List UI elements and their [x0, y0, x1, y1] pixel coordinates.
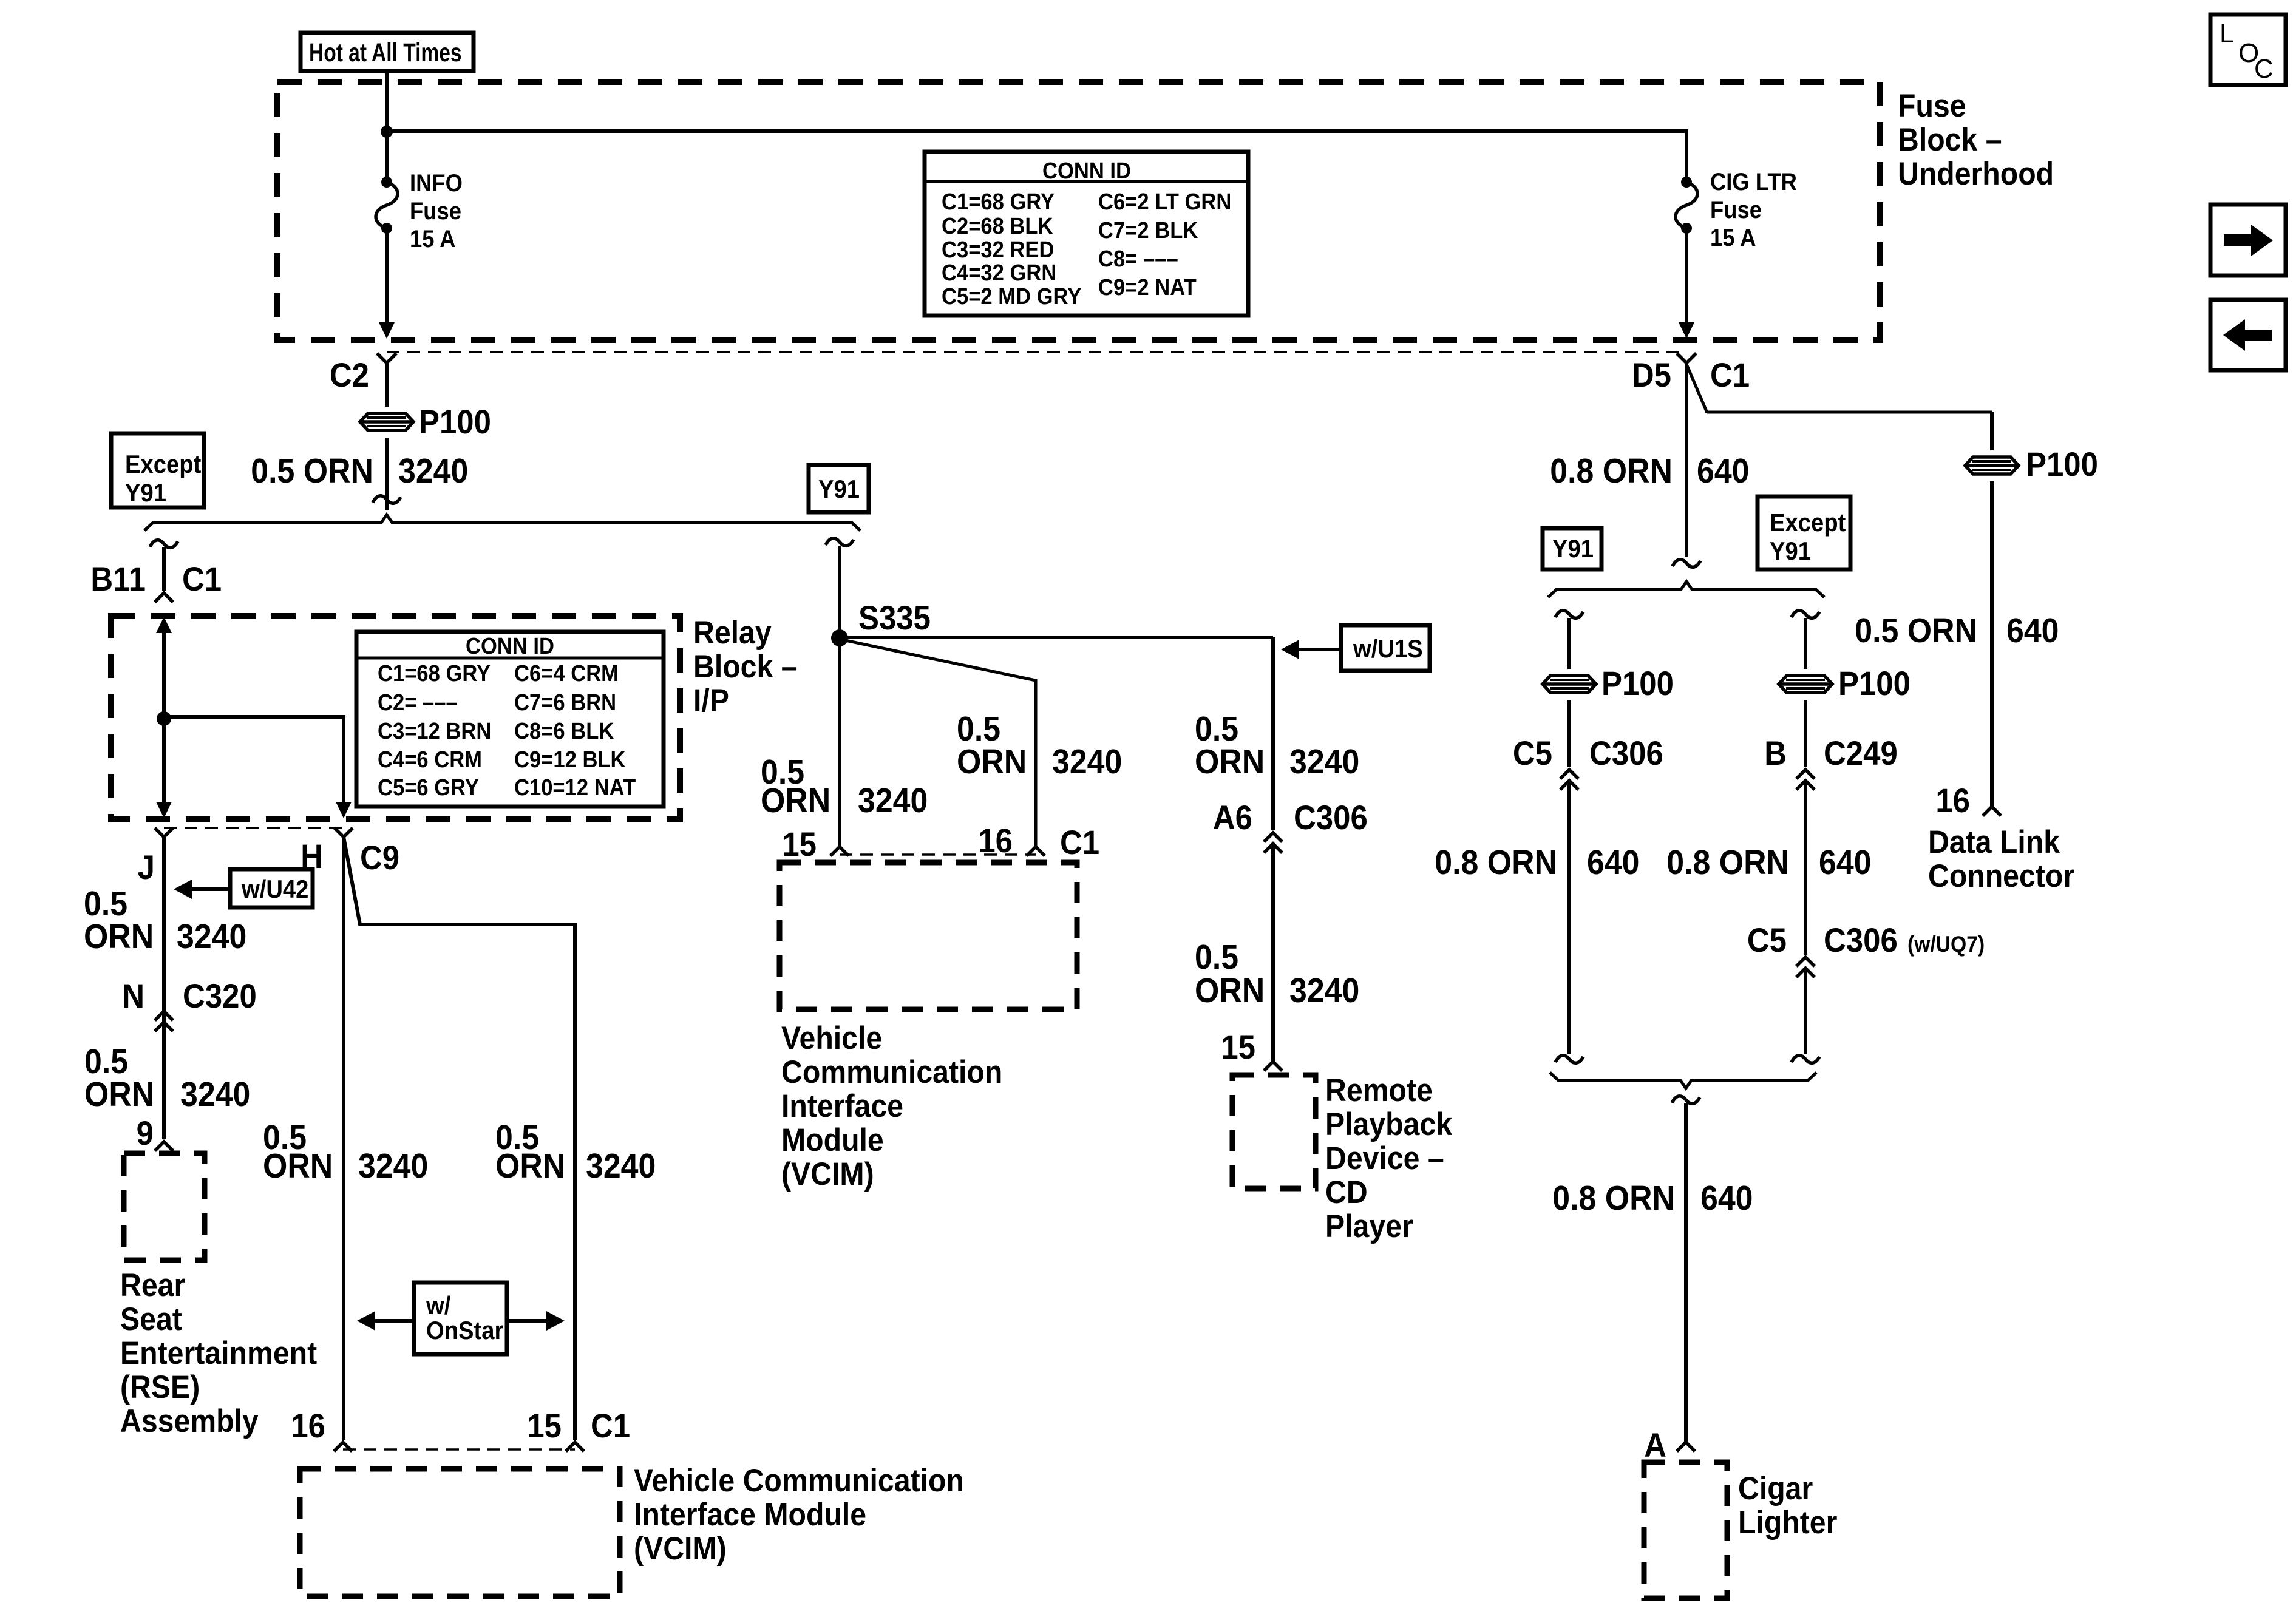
connector fork D5/C1	[1677, 353, 1696, 363]
svg-text:P100: P100	[2026, 446, 2098, 484]
svg-text:ORN: ORN	[495, 1147, 565, 1185]
svg-text:Y91: Y91	[818, 475, 860, 503]
svg-text:P100: P100	[1601, 665, 1674, 703]
svg-text:Vehicle: Vehicle	[781, 1020, 882, 1056]
fuse block dashed box: Fuse Block - Underhood	[277, 82, 1880, 340]
svg-text:Y91: Y91	[1552, 534, 1594, 563]
svg-text:I/P: I/P	[693, 682, 729, 719]
svg-text:Cigar: Cigar	[1738, 1470, 1813, 1507]
svg-text:C4=6 CRM: C4=6 CRM	[378, 746, 482, 772]
svg-text:Except: Except	[125, 450, 201, 478]
svg-text:C306: C306	[1589, 735, 1663, 773]
svg-text:0.5 ORN: 0.5 ORN	[1855, 611, 1977, 650]
svg-text:CONN ID: CONN ID	[466, 632, 554, 659]
svg-text:Data Link: Data Link	[1928, 824, 2060, 860]
svg-text:0.5 ORN: 0.5 ORN	[251, 452, 373, 490]
svg-text:B: B	[1764, 735, 1787, 773]
svg-text:A: A	[1644, 1427, 1666, 1465]
right arrow nav box	[2210, 205, 2286, 276]
svg-text:(VCIM): (VCIM)	[781, 1156, 874, 1192]
svg-text:0.8 ORN: 0.8 ORN	[1552, 1179, 1675, 1218]
svg-text:C306: C306	[1824, 922, 1898, 960]
svg-text:Block –: Block –	[693, 648, 798, 685]
connector B11 C1 chevron	[155, 593, 173, 602]
connector fork J	[155, 828, 173, 837]
wire break squiggle (below merge brace)	[1672, 1096, 1700, 1104]
svg-text:C9=12 BLK: C9=12 BLK	[514, 746, 626, 772]
wire break squiggle (Y91 drop)	[826, 538, 854, 546]
svg-text:C: C	[2254, 54, 2274, 84]
box Except Y91 (left)	[111, 433, 204, 507]
box w/U1S	[1341, 625, 1430, 671]
svg-text:J: J	[138, 849, 155, 887]
svg-text:Vehicle Communication: Vehicle Communication	[634, 1462, 964, 1499]
box w/OnStar with arrows	[357, 1311, 375, 1331]
svg-text:D5: D5	[1632, 357, 1671, 395]
svg-text:C3=12 BRN: C3=12 BRN	[378, 717, 491, 744]
svg-text:C4=32 GRN: C4=32 GRN	[942, 259, 1056, 285]
grommet P100 (left)	[360, 413, 413, 430]
svg-text:L: L	[2220, 19, 2234, 49]
svg-text:ORN: ORN	[761, 781, 830, 820]
CONN ID table (relay block)	[356, 632, 664, 807]
svg-text:Lighter: Lighter	[1738, 1504, 1837, 1541]
wire down to bottom brace (right option)	[1804, 968, 1807, 1054]
wire C2 to P100	[385, 363, 389, 407]
svg-text:Block –: Block –	[1898, 121, 2002, 158]
svg-text:(w/UQ7): (w/UQ7)	[1907, 932, 1985, 957]
svg-text:640: 640	[2006, 611, 2059, 650]
splice S335	[831, 629, 848, 646]
svg-text:C7=6 BRN: C7=6 BRN	[514, 689, 616, 715]
wire H down to VCIM pin 16	[342, 837, 345, 1440]
svg-text:3240: 3240	[1289, 971, 1359, 1010]
wire break squiggle (left option bottom)	[1555, 1056, 1583, 1063]
svg-text:CD: CD	[1325, 1174, 1368, 1210]
svg-text:3240: 3240	[586, 1147, 656, 1185]
svg-text:0.8 ORN: 0.8 ORN	[1435, 843, 1557, 882]
svg-text:Playback: Playback	[1325, 1106, 1453, 1142]
svg-text:P100: P100	[419, 404, 491, 441]
svg-text:INFO: INFO	[410, 169, 463, 197]
grommet P100 (right option)	[1779, 676, 1832, 693]
wire break squiggle (trunk above brace)	[1673, 560, 1700, 568]
svg-text:3240: 3240	[180, 1075, 250, 1114]
svg-text:Except: Except	[1770, 508, 1846, 537]
svg-text:ORN: ORN	[957, 742, 1027, 781]
wire below CIG LTR fuse	[1685, 228, 1688, 324]
VCIM dashed box (middle)	[779, 863, 1077, 1009]
box w/U42	[230, 869, 313, 907]
svg-text:S335: S335	[858, 600, 931, 637]
svg-text:P100: P100	[1838, 665, 1911, 703]
Cigar Lighter dashed box	[1644, 1462, 1727, 1598]
wire down to C5/C306 w/UQ7	[1804, 781, 1807, 955]
node junction at top feed	[381, 126, 393, 138]
wire A6 branch down	[1271, 637, 1275, 830]
arrow down to J	[156, 802, 172, 818]
svg-text:Interface Module: Interface Module	[634, 1496, 866, 1533]
wire to C5/C306	[1567, 700, 1571, 767]
svg-text:C1=68 GRY: C1=68 GRY	[378, 660, 491, 686]
svg-text:Interface: Interface	[781, 1088, 903, 1124]
svg-text:C2= –––: C2= –––	[378, 689, 458, 715]
svg-text:C5=2 MD GRY: C5=2 MD GRY	[942, 283, 1081, 309]
wire break squiggle (right option bottom)	[1792, 1056, 1819, 1063]
svg-text:C2=68 BLK: C2=68 BLK	[942, 212, 1053, 239]
splice brace (Except Y91 / Y91 options)	[144, 515, 860, 531]
svg-text:Hot at All Times: Hot at All Times	[309, 38, 462, 67]
svg-text:16: 16	[291, 1408, 325, 1445]
CONN ID table (fuse block)	[925, 152, 1248, 316]
grommet P100 (left option)	[1543, 676, 1596, 693]
svg-text:w/U42: w/U42	[241, 875, 308, 903]
svg-text:C9: C9	[360, 839, 399, 877]
svg-text:ORN: ORN	[84, 917, 154, 956]
thin dashed connector face (VCIM bottom)	[343, 1448, 575, 1451]
svg-text:Entertainment: Entertainment	[120, 1335, 317, 1371]
svg-text:3240: 3240	[398, 452, 468, 490]
svg-text:Module: Module	[781, 1122, 884, 1158]
wire break squiggle (left option drop)	[1555, 611, 1583, 619]
svg-text:w/: w/	[426, 1291, 450, 1320]
wire break squiggle (right option drop)	[1792, 611, 1819, 619]
svg-text:16: 16	[1935, 782, 1970, 820]
box Y91 (right)	[1543, 528, 1601, 569]
svg-text:(RSE): (RSE)	[120, 1369, 200, 1405]
svg-text:ORN: ORN	[1195, 742, 1265, 781]
svg-text:C249: C249	[1824, 735, 1898, 773]
wire D5 trunk down	[1685, 363, 1688, 557]
svg-text:C6=2 LT GRN: C6=2 LT GRN	[1098, 188, 1231, 214]
wire to Remote Playback pin 15	[1271, 844, 1275, 1061]
relay block dashed box: Relay Block - I/P	[111, 616, 680, 819]
svg-text:C7=2 BLK: C7=2 BLK	[1098, 217, 1198, 243]
wire inside relay block (left leg)	[162, 630, 166, 805]
node junction inside relay block	[157, 711, 171, 726]
svg-text:Y91: Y91	[1770, 537, 1811, 565]
svg-text:3240: 3240	[858, 781, 928, 820]
svg-text:C1: C1	[182, 561, 222, 598]
svg-text:0.8 ORN: 0.8 ORN	[1666, 843, 1789, 882]
svg-text:OnStar: OnStar	[426, 1316, 504, 1344]
fuse CIG LTR Fuse 15 A	[1676, 177, 1697, 234]
svg-text:B11: B11	[90, 561, 146, 598]
svg-text:CIG LTR: CIG LTR	[1710, 168, 1797, 195]
Remote Playback dashed box	[1232, 1075, 1316, 1188]
box Except Y91 (right)	[1758, 497, 1850, 569]
wire to B/C249	[1804, 700, 1807, 767]
arrow w/U1S	[1281, 640, 1299, 659]
svg-text:Rear: Rear	[120, 1267, 185, 1303]
fuse INFO Fuse 15 A	[376, 177, 398, 234]
box Hot at All Times	[301, 33, 474, 71]
left arrow nav box	[2210, 300, 2286, 370]
svg-text:C306: C306	[1294, 799, 1368, 837]
svg-text:15: 15	[1221, 1029, 1255, 1066]
svg-text:ORN: ORN	[263, 1147, 333, 1185]
svg-text:C1=68 GRY: C1=68 GRY	[942, 188, 1055, 214]
svg-text:ORN: ORN	[1195, 971, 1265, 1010]
svg-text:C3=32 RED: C3=32 RED	[942, 236, 1054, 262]
wire break squiggle	[373, 496, 401, 504]
svg-text:640: 640	[1697, 452, 1750, 490]
svg-text:C8=6 BLK: C8=6 BLK	[514, 717, 614, 744]
svg-text:3240: 3240	[358, 1147, 428, 1185]
arrow w/U42	[174, 880, 192, 899]
wire horizontal inside relay block	[164, 717, 344, 805]
svg-text:N: N	[122, 978, 144, 1015]
svg-text:(VCIM): (VCIM)	[634, 1530, 727, 1567]
svg-text:Seat: Seat	[120, 1301, 182, 1337]
svg-text:15: 15	[782, 826, 817, 864]
wire break squiggle (B11 drop)	[150, 540, 178, 548]
svg-text:Relay: Relay	[693, 614, 772, 651]
wire diagonal to DLC branch	[1686, 364, 1992, 413]
svg-text:Y91: Y91	[125, 478, 166, 507]
svg-text:Fuse: Fuse	[410, 197, 461, 225]
svg-text:3240: 3240	[177, 917, 246, 956]
svg-text:Player: Player	[1325, 1208, 1413, 1244]
svg-text:C1: C1	[1710, 357, 1750, 395]
svg-text:C5=6 GRY: C5=6 GRY	[378, 774, 479, 800]
wire left option down	[1567, 618, 1571, 669]
svg-text:Device –: Device –	[1325, 1140, 1444, 1176]
arrow down at fuse block exit (right)	[1679, 322, 1694, 339]
svg-text:Assembly: Assembly	[120, 1403, 259, 1439]
svg-text:C1: C1	[591, 1408, 630, 1445]
svg-text:A6: A6	[1213, 799, 1252, 837]
wire J down	[162, 837, 166, 1139]
wire right option down	[1804, 618, 1807, 669]
svg-text:Connector: Connector	[1928, 858, 2074, 894]
connector fork C2	[377, 353, 396, 363]
svg-text:C8= –––: C8= –––	[1098, 245, 1178, 271]
LOC icon box	[2210, 15, 2286, 85]
RSE dashed box	[124, 1153, 205, 1260]
svg-text:C5: C5	[1513, 735, 1552, 773]
svg-text:Fuse: Fuse	[1898, 87, 1966, 124]
wire from Hot at All Times into fuse block	[385, 71, 389, 178]
svg-text:Remote: Remote	[1325, 1072, 1433, 1108]
svg-text:3240: 3240	[1052, 742, 1122, 781]
arrow up into relay block	[156, 617, 172, 633]
wire DLC branch down	[1990, 412, 1994, 450]
svg-text:15 A: 15 A	[410, 225, 456, 253]
svg-text:C6=4 CRM: C6=4 CRM	[514, 660, 619, 686]
svg-text:15: 15	[527, 1408, 562, 1445]
wire down to bottom brace (left option)	[1567, 781, 1571, 1054]
thin dashed connector face (VCIM middle)	[840, 853, 1036, 856]
svg-text:C9=2 NAT: C9=2 NAT	[1098, 274, 1197, 300]
svg-text:C320: C320	[183, 978, 257, 1015]
grommet P100 (DLC)	[1965, 457, 2019, 474]
VCIM dashed box (bottom)	[300, 1469, 620, 1596]
wire below INFO fuse	[385, 228, 389, 324]
wire S335 diagonal to pin 16 branch	[840, 639, 1036, 846]
wire down to cigar lighter	[1684, 1103, 1688, 1442]
svg-text:w/U1S: w/U1S	[1353, 634, 1423, 663]
wire H diagonal branch to pin 15	[344, 837, 575, 1440]
merge brace (bottom, inverted)	[1550, 1073, 1816, 1088]
svg-text:3240: 3240	[1289, 742, 1359, 781]
wire Y91 drop to S335 and down to pin 15	[838, 546, 841, 846]
svg-text:Communication: Communication	[781, 1054, 1002, 1090]
svg-text:C10=12 NAT: C10=12 NAT	[514, 774, 636, 800]
svg-text:0.8 ORN: 0.8 ORN	[1550, 452, 1673, 490]
svg-text:ORN: ORN	[84, 1075, 154, 1114]
arrow down to H	[336, 802, 352, 818]
svg-text:C5: C5	[1747, 922, 1787, 960]
wire P100 to DLC pin 16	[1990, 481, 1994, 806]
thin dashed connector face line below relay block	[164, 827, 344, 829]
svg-text:640: 640	[1587, 843, 1640, 882]
svg-text:Underhood: Underhood	[1898, 155, 2054, 192]
svg-text:640: 640	[1700, 1179, 1753, 1218]
svg-text:C1: C1	[1060, 824, 1099, 862]
svg-text:9: 9	[137, 1115, 154, 1153]
svg-text:Fuse: Fuse	[1710, 196, 1762, 223]
splice brace (Y91 / Except Y91 options, right)	[1548, 581, 1824, 597]
svg-text:C2: C2	[330, 357, 369, 395]
thin dashed connector face line below fuse block	[387, 351, 1686, 353]
arrow down at fuse block exit (left)	[379, 322, 395, 339]
svg-text:CONN ID: CONN ID	[1042, 157, 1131, 183]
wire drop to B11	[162, 547, 166, 591]
svg-text:640: 640	[1819, 843, 1872, 882]
wire S335 horizontal to A6 branch	[840, 636, 1273, 639]
wire horizontal bus to CIG LTR fuse	[387, 131, 1686, 178]
connector fork H / C9	[335, 828, 353, 837]
box Y91 (middle)	[809, 465, 869, 512]
wire P100 to splice brace	[385, 438, 389, 510]
svg-text:15 A: 15 A	[1710, 224, 1756, 251]
